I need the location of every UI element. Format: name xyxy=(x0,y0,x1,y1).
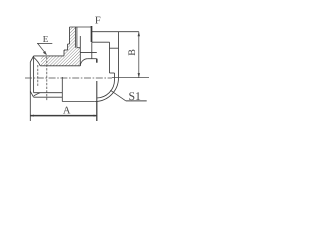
svg-text:A: A xyxy=(63,106,71,117)
svg-text:E: E xyxy=(43,34,49,44)
svg-text:B: B xyxy=(127,49,138,56)
svg-text:F: F xyxy=(95,16,101,27)
